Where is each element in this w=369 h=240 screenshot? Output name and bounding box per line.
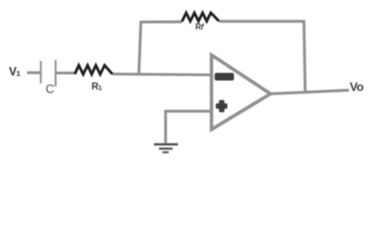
- svg-text:Rf: Rf: [195, 21, 205, 31]
- svg-text:Vo: Vo: [350, 80, 364, 94]
- svg-text:C: C: [46, 82, 55, 96]
- svg-text:R1: R1: [92, 81, 103, 92]
- svg-text:V1: V1: [9, 66, 20, 78]
